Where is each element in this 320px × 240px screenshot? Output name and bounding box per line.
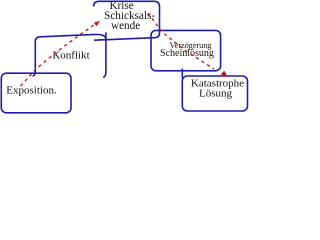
arrowhead (to Katastrophe)	[221, 71, 228, 77]
svg-text:Konflikt: Konflikt	[52, 50, 89, 62]
connector stub Verzoegerung-to-Katastrophe	[181, 69, 183, 78]
box Katastrophe	[182, 76, 247, 111]
dashed arrow Krise to Katastrophe	[148, 13, 214, 69]
svg-text:wende: wende	[111, 20, 140, 32]
arrowhead (to Krise)	[94, 21, 100, 27]
svg-text:Scheinlösung: Scheinlösung	[160, 48, 214, 59]
connector stub Konflikt-to-Krise	[105, 32, 107, 39]
svg-text:Lösung: Lösung	[199, 87, 233, 99]
dashed arrow Exposition to Krise	[21, 24, 97, 87]
box Konflikt (open bottom, skewed scan)	[33, 34, 106, 77]
box Verzoegerung/Scheinloesung	[151, 30, 221, 70]
box Exposition	[1, 73, 71, 113]
svg-text:Exposition.: Exposition.	[6, 85, 57, 97]
box Krise (open on left side)	[94, 1, 160, 40]
